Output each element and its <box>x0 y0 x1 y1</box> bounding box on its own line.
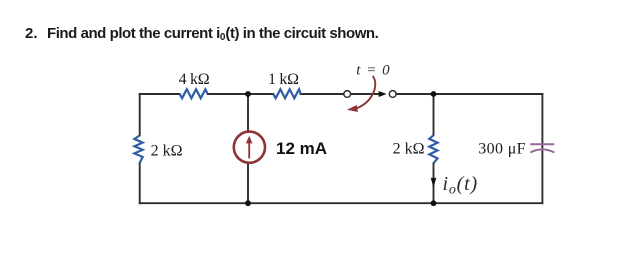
svg-text:300 μF: 300 μF <box>478 140 526 157</box>
svg-text:4 kΩ: 4 kΩ <box>179 71 210 88</box>
svg-text:2 kΩ: 2 kΩ <box>151 143 183 160</box>
svg-text:t = 0: t = 0 <box>356 63 390 79</box>
svg-text:12 mA: 12 mA <box>276 139 327 158</box>
svg-text:io(t): io(t) <box>443 173 478 197</box>
svg-text:2 kΩ: 2 kΩ <box>393 140 425 157</box>
svg-text:1 kΩ: 1 kΩ <box>268 71 299 88</box>
